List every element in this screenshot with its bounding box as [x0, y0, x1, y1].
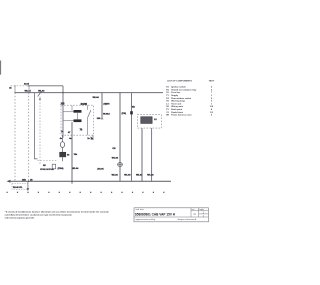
wire x142 drop: [141, 128, 143, 181]
wire link x15: [14, 86, 16, 93]
svg-text:2t-04: 2t-04: [24, 83, 30, 86]
wire x40 drop (dashed): [39, 97, 41, 166]
svg-text:7: 7: [211, 92, 213, 94]
svg-text:vedi schema impianto generale: vedi schema impianto generale: [5, 216, 36, 219]
coil feed stub: [71, 105, 73, 110]
component blob on x131.5: [130, 111, 133, 114]
svg-text:L1: L1: [154, 119, 157, 121]
node J5: [62, 92, 63, 93]
supply bus wire: [15, 92, 163, 94]
svg-text:W1-04: W1-04: [25, 90, 32, 93]
title block h-line mid: [134, 216, 209, 218]
svg-text:W1-04: W1-04: [72, 167, 79, 170]
svg-text:W1: W1: [166, 115, 170, 117]
destination box W05 (dashed): [12, 184, 28, 190]
title block h-line right top: [191, 210, 209, 212]
svg-text:J10-04: J10-04: [97, 168, 104, 171]
svg-text:Rear window switch: Rear window switch: [171, 97, 192, 100]
svg-text:2: 2: [211, 87, 213, 89]
footnote paragraph: [5, 211, 110, 220]
list rows: [166, 86, 214, 117]
svg-text:-8: -8: [108, 113, 111, 115]
svg-text:KD: KD: [132, 107, 136, 109]
svg-text:H: H: [108, 104, 110, 106]
svg-text:5: 5: [211, 98, 213, 100]
svg-text:tav.: tav.: [192, 208, 195, 211]
dashed link to diodes: [38, 159, 58, 161]
svg-text:LIST OF COMPONENTS: LIST OF COMPONENTS: [167, 81, 192, 83]
wire 21 top feed (dashed part): [11, 85, 28, 87]
svg-text:aggiornamento restiling: aggiornamento restiling: [135, 218, 155, 221]
svg-text:(G: (G: [30, 179, 33, 181]
component F dark box: [60, 152, 66, 157]
wire x102 drop: [101, 93, 103, 119]
svg-text:Heated rear window relay: Heated rear window relay: [171, 88, 197, 91]
title block v-line 1: [190, 208, 192, 217]
svg-text:1: 1: [211, 95, 213, 97]
wire x34.5 drop: [35, 93, 38, 159]
svg-text:78b: 78b: [74, 154, 78, 156]
svg-text:Frame harness conn: Frame harness conn: [171, 114, 192, 117]
wire x120 drop: [119, 93, 121, 182]
svg-text:H1: H1: [166, 101, 170, 103]
ground bus left arrow: [7, 180, 11, 183]
svg-text:* Il circuito di riscaldamento: * Il circuito di riscaldamento lunotto e…: [5, 211, 110, 214]
svg-text:S58680861 CAB VAP 15V H: S58680861 CAB VAP 15V H: [135, 212, 176, 216]
wire corner x63 from wire21 to relay: [62, 86, 64, 138]
svg-text:W1-04: W1-04: [38, 90, 45, 93]
svg-text:Fuse box: Fuse box: [171, 92, 181, 94]
svg-text:21: 21: [9, 87, 12, 89]
svg-text:K1: K1: [166, 87, 170, 89]
svg-text:W1-04: W1-04: [147, 174, 154, 177]
svg-text:1: 1: [203, 215, 205, 218]
svg-text:2x: 2x: [87, 138, 90, 140]
svg-text:Warning lamp: Warning lamp: [171, 100, 185, 103]
wire link x29: [28, 86, 30, 93]
node bus a: [28, 181, 29, 182]
svg-text:CN: CN: [112, 148, 116, 150]
svg-text:mod. data: mod. data: [135, 208, 144, 211]
title block outer frame: [134, 208, 209, 222]
svg-text:W1-04: W1-04: [112, 157, 119, 160]
svg-text:1/2: 1/2: [210, 112, 214, 114]
margin rotated page label: [0, 61, 1, 75]
wire x29 drop (dashed): [28, 93, 30, 181]
svg-text:37-61 G 37-09: 37-61 G 37-09: [40, 169, 54, 171]
svg-text:29B: 29B: [22, 180, 26, 182]
relay switch stub bottom: [87, 118, 89, 135]
wire x151.6 drop: [151, 128, 153, 181]
svg-text:N1: N1: [166, 106, 170, 108]
svg-text:R1/05: R1/05: [81, 103, 88, 106]
unit L1 inner block: [141, 117, 152, 124]
relay coil bar 1: [74, 110, 82, 113]
svg-text:Earth point: Earth point: [171, 108, 182, 111]
coil link: [77, 113, 79, 119]
grid tick dots row: [7, 192, 165, 193]
title block v-line 2: [198, 208, 200, 217]
node J2: [28, 85, 29, 86]
connector oval bar: [118, 164, 123, 166]
svg-text:70: 70: [80, 129, 83, 132]
title block h-line right mid: [199, 213, 209, 215]
svg-text:L1: L1: [166, 103, 169, 105]
wire x131.5 drop: [131, 93, 133, 182]
svg-text:W1-05 J7L: W1-05 J7L: [13, 187, 23, 189]
svg-text:W1-04: W1-04: [112, 174, 119, 177]
svg-text:Diode block: Diode block: [171, 112, 184, 114]
down arrowhead: [27, 188, 30, 191]
svg-text:16: 16: [67, 155, 70, 157]
node J3: [14, 92, 15, 93]
svg-text:(7/6): (7/6): [122, 113, 127, 115]
wire relay pin to ground bus x72: [71, 122, 73, 184]
svg-text:TEXT: TEXT: [209, 81, 215, 83]
wire 21 top feed (solid part): [28, 85, 64, 87]
svg-text:1/4: 1/4: [210, 105, 214, 108]
svg-text:P1: P1: [166, 109, 169, 111]
node J4: [28, 92, 29, 93]
svg-text:disegno unificazione A: disegno unificazione A: [178, 218, 198, 221]
ground bus wire: [9, 180, 172, 182]
unit L1 box (dashed): [137, 115, 161, 128]
coil lead b: [63, 120, 74, 122]
svg-text:R1: R1: [166, 89, 170, 91]
svg-text:2: 2: [211, 115, 213, 117]
svg-text:Wiring main: Wiring main: [171, 105, 184, 108]
svg-text:(7/6A): (7/6A): [58, 167, 64, 170]
stub end arrow: [91, 136, 94, 139]
relay K box (dashed): [61, 105, 94, 135]
coil lead a: [63, 111, 74, 113]
wire below lamp: [62, 148, 64, 153]
svg-text:Supply: Supply: [171, 95, 179, 97]
lamp H ellipse: [60, 142, 64, 148]
node J1: [14, 85, 15, 86]
svg-text:V1: V1: [166, 112, 169, 114]
svg-text:2: 2: [211, 89, 213, 91]
svg-text:T1: T1: [166, 95, 169, 97]
svg-text:controllato da interruttore su: controllato da interruttore su plancia c…: [5, 214, 73, 217]
node bus b: [71, 181, 72, 182]
svg-text:W1-04: W1-04: [136, 174, 143, 177]
svg-text:N.: N.: [194, 212, 197, 216]
svg-text:Ignition switch: Ignition switch: [171, 86, 186, 89]
svg-text:1N: 1N: [43, 165, 46, 167]
svg-text:4: 4: [211, 108, 213, 111]
wire x15 drop (dashed): [14, 93, 16, 182]
switch S contact diagonal: [38, 91, 42, 96]
svg-text:(x: (x: [61, 131, 64, 133]
wire lamp branch x62.5: [62, 135, 64, 141]
svg-text:J05: J05: [60, 103, 65, 106]
relay coil bar 2: [74, 119, 82, 122]
relay switch stub top: [87, 105, 89, 110]
svg-text:W1-04: W1-04: [124, 174, 131, 177]
svg-text:S1: S1: [166, 92, 169, 94]
svg-text:Timer unit: Timer unit: [171, 102, 181, 105]
down arrow from bus: [27, 181, 29, 188]
connector oval on x120: [118, 163, 123, 167]
svg-text:180: 180: [97, 118, 101, 120]
wire stub x93: [92, 135, 94, 138]
x102 end tick: [101, 118, 104, 120]
svg-text:2: 2: [211, 101, 213, 103]
svg-text:47: 47: [68, 131, 71, 134]
diode D symbol: [52, 164, 55, 169]
svg-text:W1-04: W1-04: [93, 96, 100, 99]
wire below F: [62, 157, 64, 161]
svg-text:1: 1: [211, 103, 213, 105]
relay switch blade: [88, 110, 91, 118]
svg-text:D1: D1: [166, 98, 170, 100]
